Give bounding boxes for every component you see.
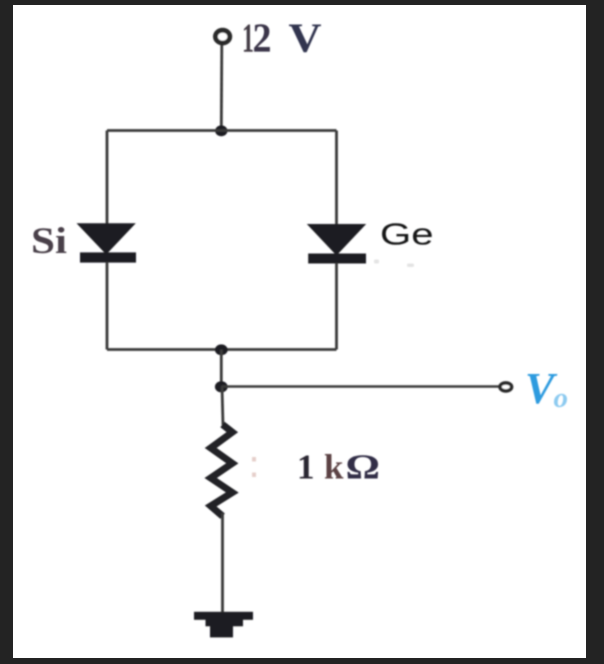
wire: output line from node C to Vo terminal — [221, 385, 499, 387]
node A: top junction dot — [215, 125, 227, 136]
diode D2 Ge: cathode bar — [308, 254, 366, 264]
diode D1 Si: triangle (anode) — [77, 223, 136, 254]
resistor R1: zigzag body — [211, 425, 233, 517]
wire: left branch upper (rail to Si anode) — [106, 131, 109, 227]
wire: right branch upper (rail to Ge anode) — [335, 131, 338, 227]
diode D1 Si: cathode bar — [80, 252, 136, 262]
stray scan mark: faint colon right of resistor — [252, 457, 256, 477]
svg-text:Si: Si — [31, 221, 67, 262]
svg-text:Ge: Ge — [380, 217, 434, 252]
terminal: Vo output (open circle) — [500, 383, 512, 391]
wire: node C down to resistor R1 — [222, 387, 223, 426]
wire: bottom rail — [107, 348, 337, 351]
node C: output junction dot — [215, 381, 228, 392]
node B: bottom rail junction dot — [215, 344, 228, 355]
wire: resistor R1 down to ground — [221, 513, 224, 613]
stray scan smudge near Ge — [374, 260, 414, 268]
svg-text:2: 2 — [253, 15, 272, 61]
wire: top rail — [107, 129, 337, 132]
svg-text:V: V — [289, 15, 322, 61]
ground: solid stepped chassis symbol — [194, 612, 253, 638]
svg-text:Ω: Ω — [346, 448, 381, 487]
wire: left branch lower (Si cathode to bottom rail) — [106, 262, 109, 350]
wire: right branch lower (Ge cathode to bottom rail) — [335, 263, 338, 350]
svg-text:1: 1 — [297, 448, 315, 487]
terminal: +12 V supply (open circle) — [215, 30, 229, 43]
wire: node B down to node C — [220, 350, 223, 388]
svg-text:o: o — [554, 382, 569, 414]
diode D2 Ge: triangle (anode) — [307, 224, 366, 256]
wire: 12V terminal down to node A — [220, 43, 223, 131]
svg-text:k: k — [324, 448, 344, 487]
